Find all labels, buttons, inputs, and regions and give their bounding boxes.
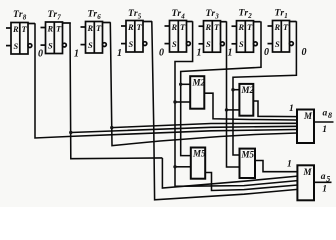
svg-text:S: S xyxy=(129,40,134,49)
svg-text:R: R xyxy=(274,23,281,32)
svg-text:R: R xyxy=(47,25,54,34)
svg-text:М2: М2 xyxy=(192,78,206,88)
svg-text:S: S xyxy=(206,40,211,49)
svg-text:a: a xyxy=(321,172,326,182)
svg-text:T: T xyxy=(180,23,186,32)
svg-text:М5: М5 xyxy=(241,150,255,160)
svg-text:S: S xyxy=(48,42,53,51)
svg-text:S: S xyxy=(88,41,93,50)
svg-text:R: R xyxy=(12,25,19,34)
svg-text:a: a xyxy=(323,109,328,119)
svg-text:М: М xyxy=(303,167,313,177)
svg-text:М2: М2 xyxy=(241,85,255,95)
svg-text:0: 0 xyxy=(159,48,164,59)
svg-text:1: 1 xyxy=(117,48,122,59)
svg-text:T: T xyxy=(137,23,143,32)
svg-text:3: 3 xyxy=(214,13,219,21)
svg-text:1: 1 xyxy=(289,104,294,114)
svg-text:R: R xyxy=(171,23,178,32)
svg-text:R: R xyxy=(238,23,245,32)
svg-text:Тr: Тr xyxy=(206,8,216,19)
svg-text:8: 8 xyxy=(328,111,332,120)
svg-text:Тr: Тr xyxy=(13,9,23,20)
svg-text:5: 5 xyxy=(138,13,142,21)
svg-text:4: 4 xyxy=(180,13,185,21)
svg-text:R: R xyxy=(127,23,134,32)
svg-text:R: R xyxy=(205,23,212,32)
svg-text:М5: М5 xyxy=(192,149,206,159)
svg-text:Тr: Тr xyxy=(275,8,285,19)
svg-text:T: T xyxy=(56,25,62,34)
svg-text:0: 0 xyxy=(302,47,307,58)
svg-text:Тr: Тr xyxy=(128,8,138,19)
svg-text:R: R xyxy=(87,24,94,33)
svg-text:0: 0 xyxy=(38,49,43,60)
svg-text:Тr: Тr xyxy=(48,9,58,20)
svg-text:T: T xyxy=(283,23,289,32)
svg-text:6: 6 xyxy=(97,13,101,21)
svg-text:2: 2 xyxy=(247,12,252,20)
svg-text:S: S xyxy=(172,40,177,49)
svg-text:Тr: Тr xyxy=(172,8,182,19)
svg-text:1: 1 xyxy=(74,49,79,60)
svg-text:1: 1 xyxy=(322,125,327,135)
svg-text:T: T xyxy=(96,24,102,33)
svg-text:0: 0 xyxy=(264,47,269,58)
svg-text:7: 7 xyxy=(57,14,61,22)
svg-text:М: М xyxy=(303,111,313,121)
svg-text:T: T xyxy=(247,23,253,32)
svg-text:1: 1 xyxy=(284,12,288,20)
svg-text:1: 1 xyxy=(287,160,292,170)
svg-text:1: 1 xyxy=(322,185,327,195)
svg-text:T: T xyxy=(22,25,28,34)
svg-text:Тr: Тr xyxy=(239,8,249,19)
svg-text:S: S xyxy=(239,40,244,49)
svg-text:8: 8 xyxy=(23,14,27,22)
svg-text:1: 1 xyxy=(197,48,202,59)
svg-text:1: 1 xyxy=(228,48,233,59)
svg-text:T: T xyxy=(214,23,220,32)
svg-text:5: 5 xyxy=(326,175,330,184)
svg-text:S: S xyxy=(14,42,19,51)
svg-text:Тr: Тr xyxy=(88,9,98,20)
svg-text:S: S xyxy=(275,40,280,49)
